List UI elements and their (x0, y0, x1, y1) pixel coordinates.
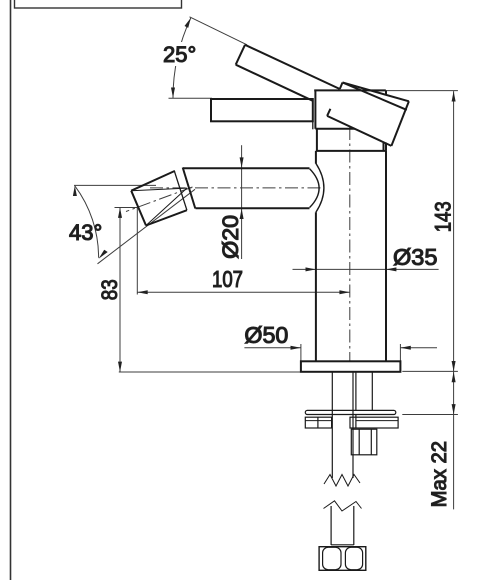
svg-text:Ø35: Ø35 (393, 244, 438, 270)
svg-text:25°: 25° (163, 42, 196, 67)
svg-text:Ø20: Ø20 (218, 215, 243, 259)
svg-text:143: 143 (431, 201, 456, 232)
svg-text:83: 83 (97, 279, 122, 300)
svg-text:Ø50: Ø50 (244, 322, 288, 348)
svg-text:Max 22: Max 22 (428, 441, 451, 508)
svg-text:43°: 43° (69, 220, 102, 245)
svg-text:107: 107 (212, 266, 243, 292)
